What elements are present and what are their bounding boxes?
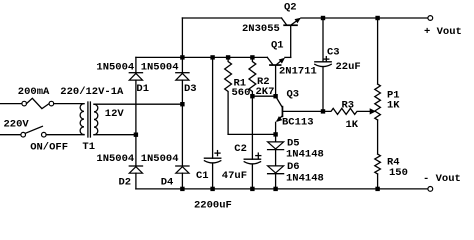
svg-text:220/12V-1A: 220/12V-1A bbox=[60, 86, 124, 98]
wire D3 to D4 column bbox=[181, 80, 183, 166]
svg-text:BC113: BC113 bbox=[282, 116, 314, 128]
wire Q3 emitter to D5 bbox=[275, 134, 277, 142]
svg-text:1N4148: 1N4148 bbox=[286, 173, 324, 185]
diode D3 bbox=[176, 73, 189, 80]
wire mains live top bbox=[0, 103, 22, 105]
svg-text:1N5004: 1N5004 bbox=[141, 62, 179, 74]
svg-text:D2: D2 bbox=[119, 176, 132, 188]
node R4 bottom junction bbox=[375, 187, 379, 191]
svg-text:1K: 1K bbox=[387, 100, 400, 112]
wire D6 to bottom rail bbox=[275, 174, 277, 189]
wire R2 bottom to Q3 collector node bbox=[252, 95, 275, 97]
diode D5 bbox=[268, 142, 284, 150]
node Q1 base junction bbox=[273, 94, 277, 98]
wire secondary top to node AC2 bbox=[94, 103, 182, 105]
node AC2 junction bbox=[180, 102, 184, 106]
transistor Q3 BC113 bbox=[276, 96, 323, 134]
wire D1 column top bbox=[135, 57, 137, 72]
svg-text:22uF: 22uF bbox=[336, 61, 361, 73]
capacitor C3 22uF bbox=[315, 57, 331, 112]
wire negative bottom rail bbox=[136, 188, 428, 190]
wire D2 column bottom bbox=[135, 173, 137, 189]
wire riser bridge to Q2 collector bbox=[181, 18, 183, 57]
node C2 bottom junction bbox=[250, 187, 254, 191]
transistor Q1 2N1711 bbox=[267, 57, 290, 96]
wire fuse to transformer primary bbox=[54, 103, 84, 105]
svg-text:+ Vout: + Vout bbox=[424, 26, 462, 38]
wire D1 to D2 column bbox=[135, 80, 137, 166]
svg-text:Q1: Q1 bbox=[271, 40, 284, 52]
wire D4 column bottom bbox=[181, 173, 183, 189]
node D6 bottom junction bbox=[273, 187, 277, 191]
fuse F1 200mA bbox=[22, 98, 54, 108]
svg-text:D3: D3 bbox=[184, 83, 197, 95]
svg-text:47uF: 47uF bbox=[222, 170, 247, 182]
svg-text:D5: D5 bbox=[287, 137, 300, 149]
wire C3 top stub bbox=[322, 18, 324, 62]
capacitor C1 2200uF bbox=[204, 151, 220, 189]
node C1 top rail junction bbox=[210, 55, 214, 59]
svg-text:Q3: Q3 bbox=[287, 88, 300, 100]
svg-text:220V: 220V bbox=[4, 119, 30, 131]
transistor Q2 2N3055 bbox=[282, 18, 301, 58]
switch S1 ON/OFF bbox=[21, 126, 46, 137]
wire unregulated + rail bbox=[136, 56, 267, 58]
diode D6 bbox=[268, 166, 284, 174]
transformer T1 primary winding bbox=[80, 104, 84, 135]
wire mains neutral bottom bbox=[0, 134, 21, 136]
svg-text:D4: D4 bbox=[161, 176, 174, 188]
transformer T1 secondary winding bbox=[94, 104, 98, 134]
wire R4 to bottom rail bbox=[377, 174, 379, 189]
wire D3 column top bbox=[181, 57, 183, 72]
wire P1 top stub bbox=[377, 18, 379, 84]
wire R2 node down to C2 bbox=[251, 96, 253, 159]
wire secondary bottom to node AC1 bbox=[94, 134, 136, 136]
wire D5 to D6 bbox=[275, 150, 277, 166]
svg-text:- Vout: - Vout bbox=[423, 173, 461, 185]
diode D1 bbox=[129, 73, 142, 80]
wire output + rail bbox=[301, 17, 428, 19]
diode D4 bbox=[176, 166, 189, 173]
svg-text:560: 560 bbox=[232, 87, 251, 99]
svg-text:R3: R3 bbox=[342, 99, 355, 111]
transformer T1 core bbox=[88, 102, 91, 137]
diode D2 bbox=[129, 166, 142, 173]
svg-text:1N4148: 1N4148 bbox=[286, 149, 324, 161]
resistor R2 2K7 bbox=[249, 57, 256, 96]
svg-text:12V: 12V bbox=[105, 108, 125, 120]
svg-text:1N5004: 1N5004 bbox=[96, 62, 134, 74]
svg-text:T1: T1 bbox=[82, 141, 95, 153]
terminal + Vout bbox=[428, 16, 433, 21]
node R2 bottom junction bbox=[250, 94, 254, 98]
svg-text:D1: D1 bbox=[136, 83, 149, 95]
wire top collector feed bbox=[182, 17, 281, 19]
svg-text:1N5004: 1N5004 bbox=[96, 153, 134, 165]
node R1 top rail junction bbox=[226, 55, 230, 59]
node C3 top junction bbox=[321, 16, 325, 20]
node bridge top junction bbox=[180, 55, 184, 59]
svg-text:2N1711: 2N1711 bbox=[279, 65, 317, 77]
node R2 top rail junction bbox=[250, 55, 254, 59]
node P1 top rail junction bbox=[375, 16, 379, 20]
terminal - Vout bbox=[428, 187, 433, 192]
potentiometer P1 1K bbox=[375, 84, 381, 120]
wire P1 to R4 bbox=[377, 120, 379, 154]
svg-text:C3: C3 bbox=[327, 47, 340, 59]
svg-text:200mA: 200mA bbox=[18, 86, 50, 98]
node C3 bottom junction bbox=[321, 109, 325, 113]
capacitor C2 47uF bbox=[244, 153, 261, 189]
svg-text:ON/OFF: ON/OFF bbox=[30, 141, 68, 153]
svg-text:C1: C1 bbox=[196, 170, 209, 182]
resistor R3 1K bbox=[323, 108, 370, 114]
svg-text:2200uF: 2200uF bbox=[194, 199, 232, 211]
wire C1 top stub bbox=[212, 57, 214, 158]
resistor R4 150 bbox=[375, 154, 381, 174]
svg-text:Q2: Q2 bbox=[284, 2, 297, 14]
node C1 bottom junction bbox=[210, 187, 214, 191]
svg-text:1N5004: 1N5004 bbox=[141, 153, 179, 165]
wire switch to transformer primary bbox=[46, 134, 84, 136]
svg-text:1K: 1K bbox=[346, 119, 359, 131]
svg-text:2N3055: 2N3055 bbox=[242, 23, 280, 35]
wire R1 bottom to Q3 emitter node bbox=[228, 133, 276, 135]
svg-text:D6: D6 bbox=[287, 161, 300, 173]
svg-text:150: 150 bbox=[389, 167, 408, 179]
svg-text:C2: C2 bbox=[234, 143, 247, 155]
node Q3 emitter junction bbox=[273, 132, 277, 136]
potentiometer P1 wiper arrow bbox=[370, 108, 376, 114]
node AC1 junction bbox=[134, 133, 138, 137]
resistor R1 560 bbox=[225, 57, 232, 134]
node D4 bottom junction bbox=[180, 187, 184, 191]
